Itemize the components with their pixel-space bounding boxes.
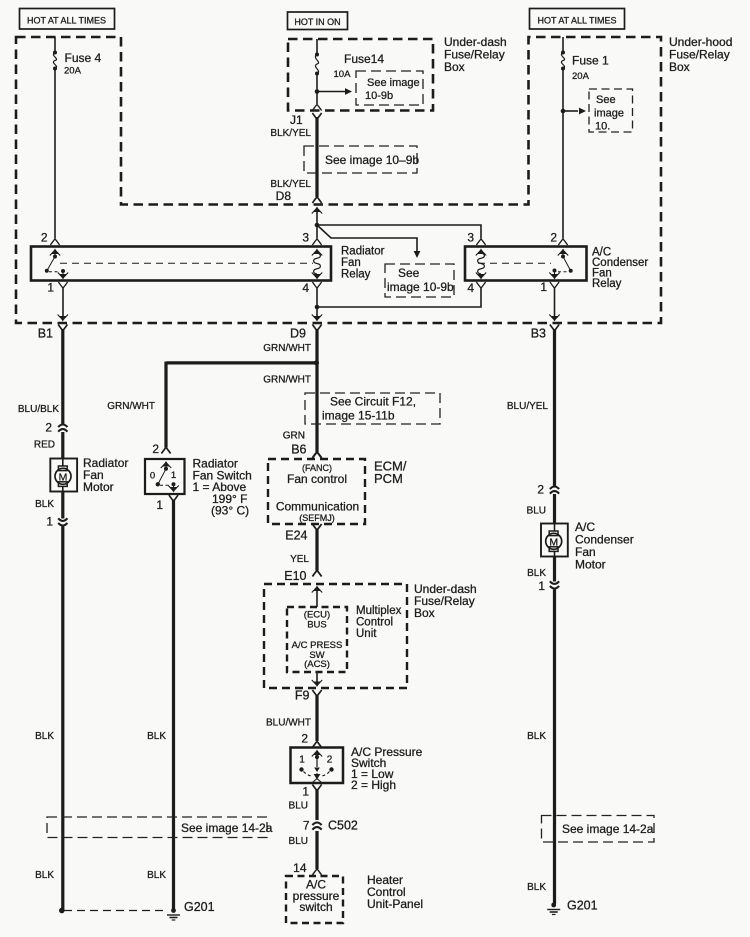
svg-text:HOT IN ON: HOT IN ON: [294, 17, 340, 27]
svg-text:Relay: Relay: [341, 269, 371, 281]
svg-text:Motor: Motor: [575, 558, 606, 572]
svg-text:BLU: BLU: [289, 801, 308, 812]
svg-text:BLU/YEL: BLU/YEL: [507, 401, 549, 412]
svg-text:B1: B1: [38, 327, 53, 341]
svg-text:Multiplex: Multiplex: [356, 605, 402, 617]
svg-text:Control: Control: [356, 617, 393, 629]
svg-text:switch: switch: [299, 900, 332, 914]
svg-text:image 15-11b: image 15-11b: [322, 409, 395, 423]
svg-text:Box: Box: [669, 60, 690, 74]
svg-text:BLK: BLK: [147, 870, 166, 881]
svg-text:Fuse 1: Fuse 1: [572, 54, 609, 68]
svg-text:1: 1: [47, 281, 54, 295]
svg-text:Fuse 4: Fuse 4: [65, 51, 102, 65]
svg-text:BLU: BLU: [289, 836, 308, 847]
svg-text:Unit-Panel: Unit-Panel: [367, 897, 423, 911]
svg-text:RED: RED: [34, 440, 55, 451]
svg-text:BUS: BUS: [307, 620, 327, 631]
svg-text:GRN/WHT: GRN/WHT: [263, 343, 311, 354]
svg-text:See: See: [596, 94, 616, 106]
svg-text:Unit: Unit: [356, 628, 377, 640]
svg-text:image 10-9b: image 10-9b: [387, 280, 454, 294]
svg-text:C502: C502: [328, 819, 358, 833]
svg-text:G201: G201: [184, 900, 215, 914]
svg-text:20A: 20A: [572, 71, 590, 82]
svg-text:Communication: Communication: [276, 500, 359, 514]
svg-text:D8: D8: [276, 189, 292, 203]
svg-text:BLK: BLK: [35, 499, 54, 510]
svg-text:1: 1: [302, 785, 309, 799]
svg-text:1: 1: [46, 515, 53, 529]
svg-text:See: See: [398, 266, 420, 280]
svg-text:14: 14: [293, 861, 307, 875]
svg-text:BLU: BLU: [527, 506, 546, 517]
svg-text:1: 1: [171, 470, 176, 481]
svg-text:GRN: GRN: [283, 431, 305, 442]
svg-text:See image: See image: [367, 77, 420, 89]
svg-text:Fuse14: Fuse14: [344, 52, 384, 66]
svg-text:See image 14-2a: See image 14-2a: [181, 821, 273, 835]
svg-text:(93° C): (93° C): [211, 504, 249, 518]
svg-text:2: 2: [41, 231, 48, 245]
svg-text:BLK: BLK: [527, 882, 546, 893]
svg-text:GRN/WHT: GRN/WHT: [107, 401, 155, 412]
svg-text:BLK: BLK: [35, 731, 54, 742]
svg-text:E24: E24: [285, 529, 307, 543]
svg-text:3: 3: [302, 231, 309, 245]
svg-text:2: 2: [327, 755, 333, 766]
svg-text:2: 2: [537, 483, 544, 497]
svg-text:2 = High: 2 = High: [351, 778, 396, 792]
svg-text:Relay: Relay: [592, 278, 622, 290]
svg-text:E10: E10: [284, 569, 306, 583]
svg-text:3: 3: [467, 231, 474, 245]
svg-text:HOT AT ALL TIMES: HOT AT ALL TIMES: [27, 16, 106, 26]
svg-text:BLK: BLK: [35, 870, 54, 881]
svg-text:D9: D9: [290, 327, 306, 341]
svg-text:Fan control: Fan control: [287, 472, 347, 486]
svg-text:BLK/YEL: BLK/YEL: [270, 128, 311, 139]
svg-text:Box: Box: [414, 606, 435, 620]
svg-text:1: 1: [299, 755, 305, 766]
svg-text:10-9b: 10-9b: [365, 90, 393, 102]
svg-text:4: 4: [467, 281, 474, 295]
svg-text:Box: Box: [444, 60, 465, 74]
svg-text:See image 10–9b: See image 10–9b: [325, 153, 419, 167]
svg-text:See Circuit F12,: See Circuit F12,: [330, 395, 416, 409]
svg-text:Radiator: Radiator: [341, 246, 385, 258]
svg-text:BLK: BLK: [147, 731, 166, 742]
svg-text:J1: J1: [290, 113, 303, 127]
svg-text:PCM: PCM: [374, 471, 403, 486]
svg-text:2: 2: [152, 442, 159, 456]
svg-text:Motor: Motor: [83, 480, 114, 494]
svg-text:image: image: [594, 108, 624, 120]
svg-text:1: 1: [156, 498, 163, 512]
svg-text:F9: F9: [295, 689, 310, 703]
svg-text:7: 7: [303, 819, 310, 833]
svg-text:See image 14-2a: See image 14-2a: [562, 822, 654, 836]
svg-text:BLU/BLK: BLU/BLK: [18, 404, 59, 415]
svg-text:1: 1: [538, 579, 545, 593]
svg-text:20A: 20A: [64, 66, 82, 77]
svg-text:1: 1: [540, 280, 547, 294]
svg-text:0: 0: [150, 471, 155, 482]
svg-text:B3: B3: [531, 327, 546, 341]
svg-text:B6: B6: [291, 443, 306, 457]
svg-text:2: 2: [550, 231, 557, 245]
svg-text:10A: 10A: [334, 69, 352, 80]
svg-text:Fan: Fan: [341, 257, 361, 269]
svg-text:G201: G201: [567, 899, 598, 913]
svg-text:GRN/WHT: GRN/WHT: [263, 375, 311, 386]
svg-text:(SEFMJ): (SEFMJ): [299, 513, 335, 523]
svg-text:2: 2: [301, 732, 308, 746]
svg-text:YEL: YEL: [290, 554, 309, 565]
svg-text:(ACS): (ACS): [304, 659, 330, 670]
svg-text:10.: 10.: [595, 121, 610, 133]
svg-text:2: 2: [45, 421, 52, 435]
svg-text:BLU/WHT: BLU/WHT: [266, 718, 311, 729]
svg-text:BLK: BLK: [527, 731, 546, 742]
svg-text:BLK: BLK: [527, 568, 546, 579]
svg-text:HOT AT ALL TIMES: HOT AT ALL TIMES: [537, 16, 616, 26]
svg-text:4: 4: [302, 281, 309, 295]
